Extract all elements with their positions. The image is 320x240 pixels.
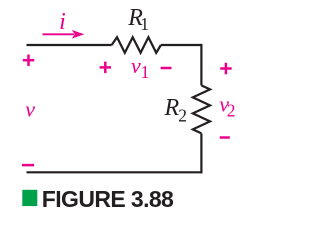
caption square: [22, 190, 37, 206]
wire right vertical upper: [200, 44, 202, 86]
minus after v1: [161, 67, 172, 70]
plus left: [23, 55, 35, 67]
wire top-left segment: [27, 44, 112, 46]
svg-text:FIGURE 3.88: FIGURE 3.88: [42, 186, 174, 212]
svg-text:R: R: [164, 95, 180, 121]
svg-text:v: v: [25, 97, 35, 122]
resistor R2: [193, 85, 210, 133]
svg-text:v: v: [131, 53, 141, 78]
minus right: [220, 136, 230, 139]
plus mid: [100, 62, 112, 74]
wire top-right segment: [161, 44, 202, 46]
svg-text:i: i: [59, 9, 66, 35]
minus left: [22, 164, 34, 167]
svg-text:1: 1: [141, 62, 150, 82]
svg-text:2: 2: [227, 100, 236, 120]
plus right: [220, 63, 232, 75]
resistor R1: [112, 37, 161, 53]
current arrow: [43, 33, 75, 35]
wire right vertical lower: [200, 133, 202, 173]
svg-text:2: 2: [178, 105, 187, 125]
svg-text:1: 1: [140, 14, 149, 34]
wire bottom: [27, 171, 203, 173]
